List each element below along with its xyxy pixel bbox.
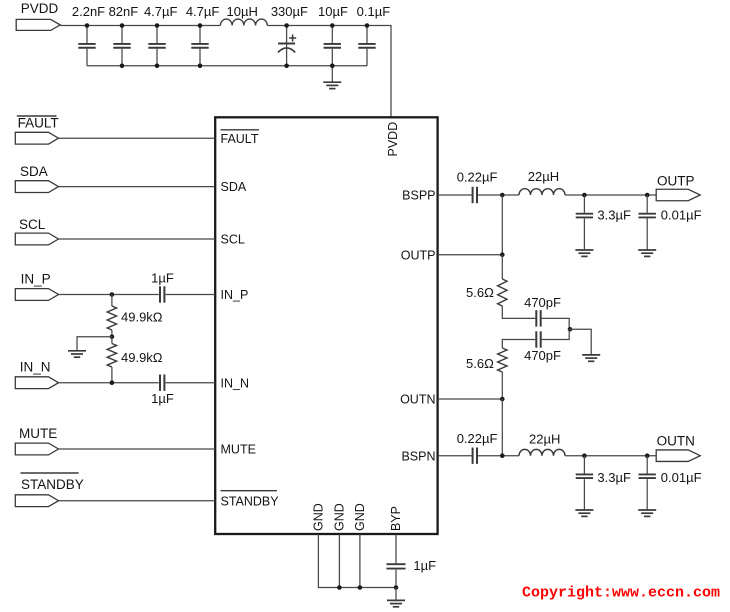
svg-text:330µF: 330µF [271, 4, 308, 19]
op-amp U1 TPA3110 class-D amplifier body [215, 117, 437, 534]
svg-text:SCL: SCL [19, 217, 46, 232]
svg-text:49.9kΩ: 49.9kΩ [121, 309, 163, 324]
wire IN_N tag to cap [59, 382, 159, 384]
svg-text:5.6Ω: 5.6Ω [466, 356, 494, 371]
svg-text:SDA: SDA [20, 164, 48, 179]
wire R3 to 470pF [502, 306, 535, 318]
svg-text:PVDD: PVDD [21, 1, 59, 16]
svg-text:4.7µF: 4.7µF [144, 4, 178, 19]
capacitor C16 3.3µF plates [576, 474, 593, 478]
wire FAULT to IC [59, 137, 216, 139]
resistor R4 lead bottom [501, 372, 503, 399]
capacitor C13 470pF (top snubber) [536, 310, 540, 326]
junction BYP ground node [394, 585, 399, 590]
svg-text:Copyright:www.eccn.com: Copyright:www.eccn.com [522, 585, 720, 602]
capacitor C16 3.3µF stems [583, 456, 585, 474]
capacitor C14 470pF (bottom snubber) [536, 331, 540, 347]
ground of C16 [575, 510, 593, 516]
capacitor C4 4.7µF stems [199, 26, 201, 44]
svg-text:IN_N: IN_N [20, 360, 51, 375]
capacitor C3 4.7µF plates [148, 44, 165, 48]
wire 0.22µF to 22µH [478, 194, 519, 196]
wire SDA to IC [59, 186, 216, 188]
svg-text:GND: GND [353, 503, 367, 531]
junction top rail x=286.6 [284, 23, 289, 28]
svg-text:OUTP: OUTP [401, 248, 436, 262]
ground of C17 [638, 510, 656, 516]
overline of pin STANDBY [221, 490, 278, 492]
capacitor C1 2.2nF stems [86, 26, 88, 44]
ground of BYP bus stem [395, 588, 397, 601]
wire BSPP pin to 0.22µF [438, 194, 472, 196]
wire MUTE to IC [59, 448, 216, 450]
svg-text:470pF: 470pF [524, 295, 561, 310]
wire top PVDD rail right of L1 with corner down to PVDD pin [267, 26, 391, 118]
capacitor C5 330µF polarized stem [286, 26, 288, 66]
svg-text:0.01µF: 0.01µF [661, 470, 702, 485]
wire OUTP pin to node [438, 254, 502, 256]
junction top rail x=87 [85, 23, 90, 28]
svg-text:MUTE: MUTE [221, 443, 256, 457]
svg-text:2.2nF: 2.2nF [72, 4, 105, 19]
wire R4 to C14 [502, 340, 535, 349]
svg-text:OUTN: OUTN [657, 433, 695, 448]
capacitor C11 3.3µF plates [576, 214, 593, 218]
junction bottom rail x=200 [198, 64, 203, 69]
svg-text:22µH: 22µH [529, 432, 560, 447]
wire OUTN node to BSPN node [501, 399, 503, 456]
junction snubber [568, 327, 573, 332]
capacitor C5 330µF curved plate [278, 48, 295, 53]
wire GND pin 3 down [359, 535, 361, 588]
wire GND pin 1 down to bus [318, 535, 396, 588]
junction IN_N bias [110, 380, 115, 385]
net tag PVDD (power input) [16, 19, 60, 30]
inductor L2 22µH [519, 189, 565, 195]
capacitor C2 82nF stems [121, 26, 123, 44]
capacitor C7 0.1µF stems [366, 26, 368, 44]
net tag OUTP [656, 189, 700, 201]
resistor R2 49.9kΩ lead [111, 337, 113, 344]
svg-text:IN_P: IN_P [221, 288, 249, 302]
svg-text:BYP: BYP [389, 506, 403, 531]
inductor L3 22µH [519, 449, 565, 455]
svg-text:3.3µF: 3.3µF [597, 470, 631, 485]
svg-text:STANDBY: STANDBY [221, 494, 280, 508]
svg-text:FAULT: FAULT [18, 116, 59, 131]
svg-text:0.01µF: 0.01µF [661, 208, 702, 223]
net tag OUTN [656, 450, 700, 462]
junction bottom rail x=332.3 [330, 64, 335, 69]
capacitor C15 0.22µF (BSPN series) [473, 448, 477, 464]
junction bottom rail x=122 [120, 64, 125, 69]
svg-text:SCL: SCL [221, 233, 245, 247]
svg-text:SDA: SDA [221, 180, 247, 194]
junction top rail x=367 [365, 23, 370, 28]
net tag FAULT [15, 132, 58, 144]
net tag IN_N [15, 377, 58, 389]
overline of pin FAULT [221, 129, 260, 131]
wire GND pin 2 down [338, 535, 340, 588]
ground of snubber [582, 355, 600, 361]
capacitor C17 0.01µF stems [646, 456, 648, 474]
junction bottom rail x=286.6 [284, 64, 289, 69]
capacitor C1 2.2nF plates [78, 44, 95, 48]
wire BYP pin to 1µF [395, 535, 397, 564]
junction OUTN pin node [500, 397, 505, 402]
svg-text:4.7µF: 4.7µF [186, 4, 220, 19]
svg-text:IN_P: IN_P [21, 272, 51, 287]
junction GND bus 2 [337, 585, 342, 590]
svg-text:0.22µF: 0.22µF [457, 170, 498, 185]
capacitor C6 10µF stems [331, 26, 333, 44]
capacitor C12 0.01µF stems [646, 195, 648, 213]
junction top rail x=157 [155, 23, 160, 28]
resistor R1 lead bottom [111, 330, 113, 337]
ground of C12 [638, 250, 656, 256]
wire 22µH to OUTN tag [565, 455, 656, 457]
svg-text:0.1µF: 0.1µF [357, 4, 391, 19]
junction BSPP node [500, 193, 505, 198]
capacitor C18 1µF (BYP) plates [387, 564, 406, 568]
capacitor C8 1µF (IN_P series) [160, 286, 164, 302]
wire IN_P tag to cap [59, 294, 159, 296]
junction top rail x=122 [120, 23, 125, 28]
net tag STANDBY [15, 495, 58, 507]
capacitor C6 10µF plates [324, 44, 341, 48]
capacitor C7 0.1µF plates [358, 44, 375, 48]
svg-text:FAULT: FAULT [221, 132, 259, 146]
wire BSPN pin to 0.22µF [438, 455, 472, 457]
svg-text:1µF: 1µF [151, 270, 174, 285]
svg-text:MUTE: MUTE [19, 426, 57, 441]
net tag SDA [15, 181, 58, 193]
wire midpoint to ground [77, 337, 112, 351]
resistor R4 5.6Ω [498, 348, 507, 372]
wire 0.22µF to 22µH (BSPN) [478, 455, 519, 457]
resistor R2 49.9kΩ [107, 344, 116, 368]
junction top rail x=200 [198, 23, 203, 28]
plus sign of C5 [289, 34, 296, 41]
svg-text:STANDBY: STANDBY [21, 477, 84, 492]
junction LC node OUTN filter [582, 453, 587, 458]
svg-text:1µF: 1µF [151, 391, 174, 406]
junction OUTP pin node [500, 252, 505, 257]
resistor R1 49.9kΩ lead [111, 295, 113, 307]
junction IN_P bias [110, 292, 115, 297]
wire cap to IN_P pin [166, 294, 215, 296]
ground of input bias [68, 351, 86, 357]
ground of decoupling rail stem [331, 66, 333, 82]
svg-text:BSPP: BSPP [402, 189, 435, 203]
junction OUTP output node [645, 193, 650, 198]
capacitor C2 82nF plates [113, 44, 130, 48]
svg-text:GND: GND [332, 503, 346, 531]
svg-text:OUTP: OUTP [657, 174, 695, 189]
svg-text:49.9kΩ: 49.9kΩ [121, 350, 163, 365]
net tag MUTE [15, 443, 58, 455]
overline of net label FAULT [17, 115, 57, 117]
svg-text:0.22µF: 0.22µF [457, 431, 498, 446]
svg-text:GND: GND [311, 503, 325, 531]
capacitor C3 4.7µF stems [156, 26, 158, 44]
svg-text:OUTN: OUTN [400, 393, 435, 407]
capacitor C10 0.22µF (BSPP series) [473, 187, 477, 203]
overline of net label STANDBY [21, 472, 79, 474]
svg-text:82nF: 82nF [109, 4, 139, 19]
junction bottom rail x=157 [155, 64, 160, 69]
net tag SCL [15, 233, 58, 245]
svg-text:5.6Ω: 5.6Ω [466, 285, 494, 300]
wire BSPP node to OUTP pin [501, 195, 503, 255]
junction LC node OUTP filter [582, 193, 587, 198]
ground of decoupling rail [323, 82, 341, 88]
svg-text:10µF: 10µF [318, 4, 348, 19]
wire top PVDD rail left of L1 [60, 25, 220, 27]
resistor R3 5.6Ω lead [501, 255, 503, 279]
wire 1µF to bus [395, 570, 397, 588]
capacitor C9 1µF (IN_N series) [160, 375, 164, 391]
capacitor C17 0.01µF plates [639, 474, 656, 478]
wire STANDBY to IC [59, 500, 216, 502]
svg-text:PVDD: PVDD [386, 122, 400, 157]
wire C13 to snubber junction [542, 318, 570, 329]
capacitor C11 3.3µF stems [583, 195, 585, 213]
wire SCL to IC [59, 238, 216, 240]
net tag IN_P [15, 289, 58, 301]
svg-text:10µH: 10µH [227, 4, 258, 19]
svg-text:1µF: 1µF [413, 558, 436, 573]
resistor R2 lead bottom [111, 367, 113, 383]
ground of BYP bus [387, 600, 405, 606]
resistor R3 5.6Ω [498, 279, 507, 306]
capacitor C4 4.7µF plates [191, 44, 208, 48]
junction top rail x=332.3 [330, 23, 335, 28]
wire C14 to snubber junction [542, 329, 570, 339]
capacitor C5 330µF flat plate [278, 43, 295, 45]
junction BSPN node [500, 453, 505, 458]
wire bottom decoupling rail [87, 65, 367, 67]
wire OUTN pin to node [438, 398, 502, 400]
svg-text:22µH: 22µH [528, 169, 559, 184]
inductor L1 10µH [220, 19, 267, 25]
resistor R1 49.9kΩ [107, 306, 116, 330]
svg-text:BSPN: BSPN [401, 449, 435, 463]
junction bias midpoint [110, 334, 115, 339]
wire cap to IN_N pin [166, 382, 215, 384]
junction OUTN output node [645, 453, 650, 458]
capacitor C12 0.01µF plates [639, 214, 656, 218]
wire 22µH to OUTP tag [565, 194, 656, 196]
wire snubber junction to ground [569, 329, 591, 354]
svg-text:470pF: 470pF [524, 348, 561, 363]
svg-text:3.3µF: 3.3µF [597, 208, 631, 223]
svg-text:IN_N: IN_N [221, 376, 249, 390]
junction GND bus 3 [358, 585, 363, 590]
ground of C11 [575, 250, 593, 256]
